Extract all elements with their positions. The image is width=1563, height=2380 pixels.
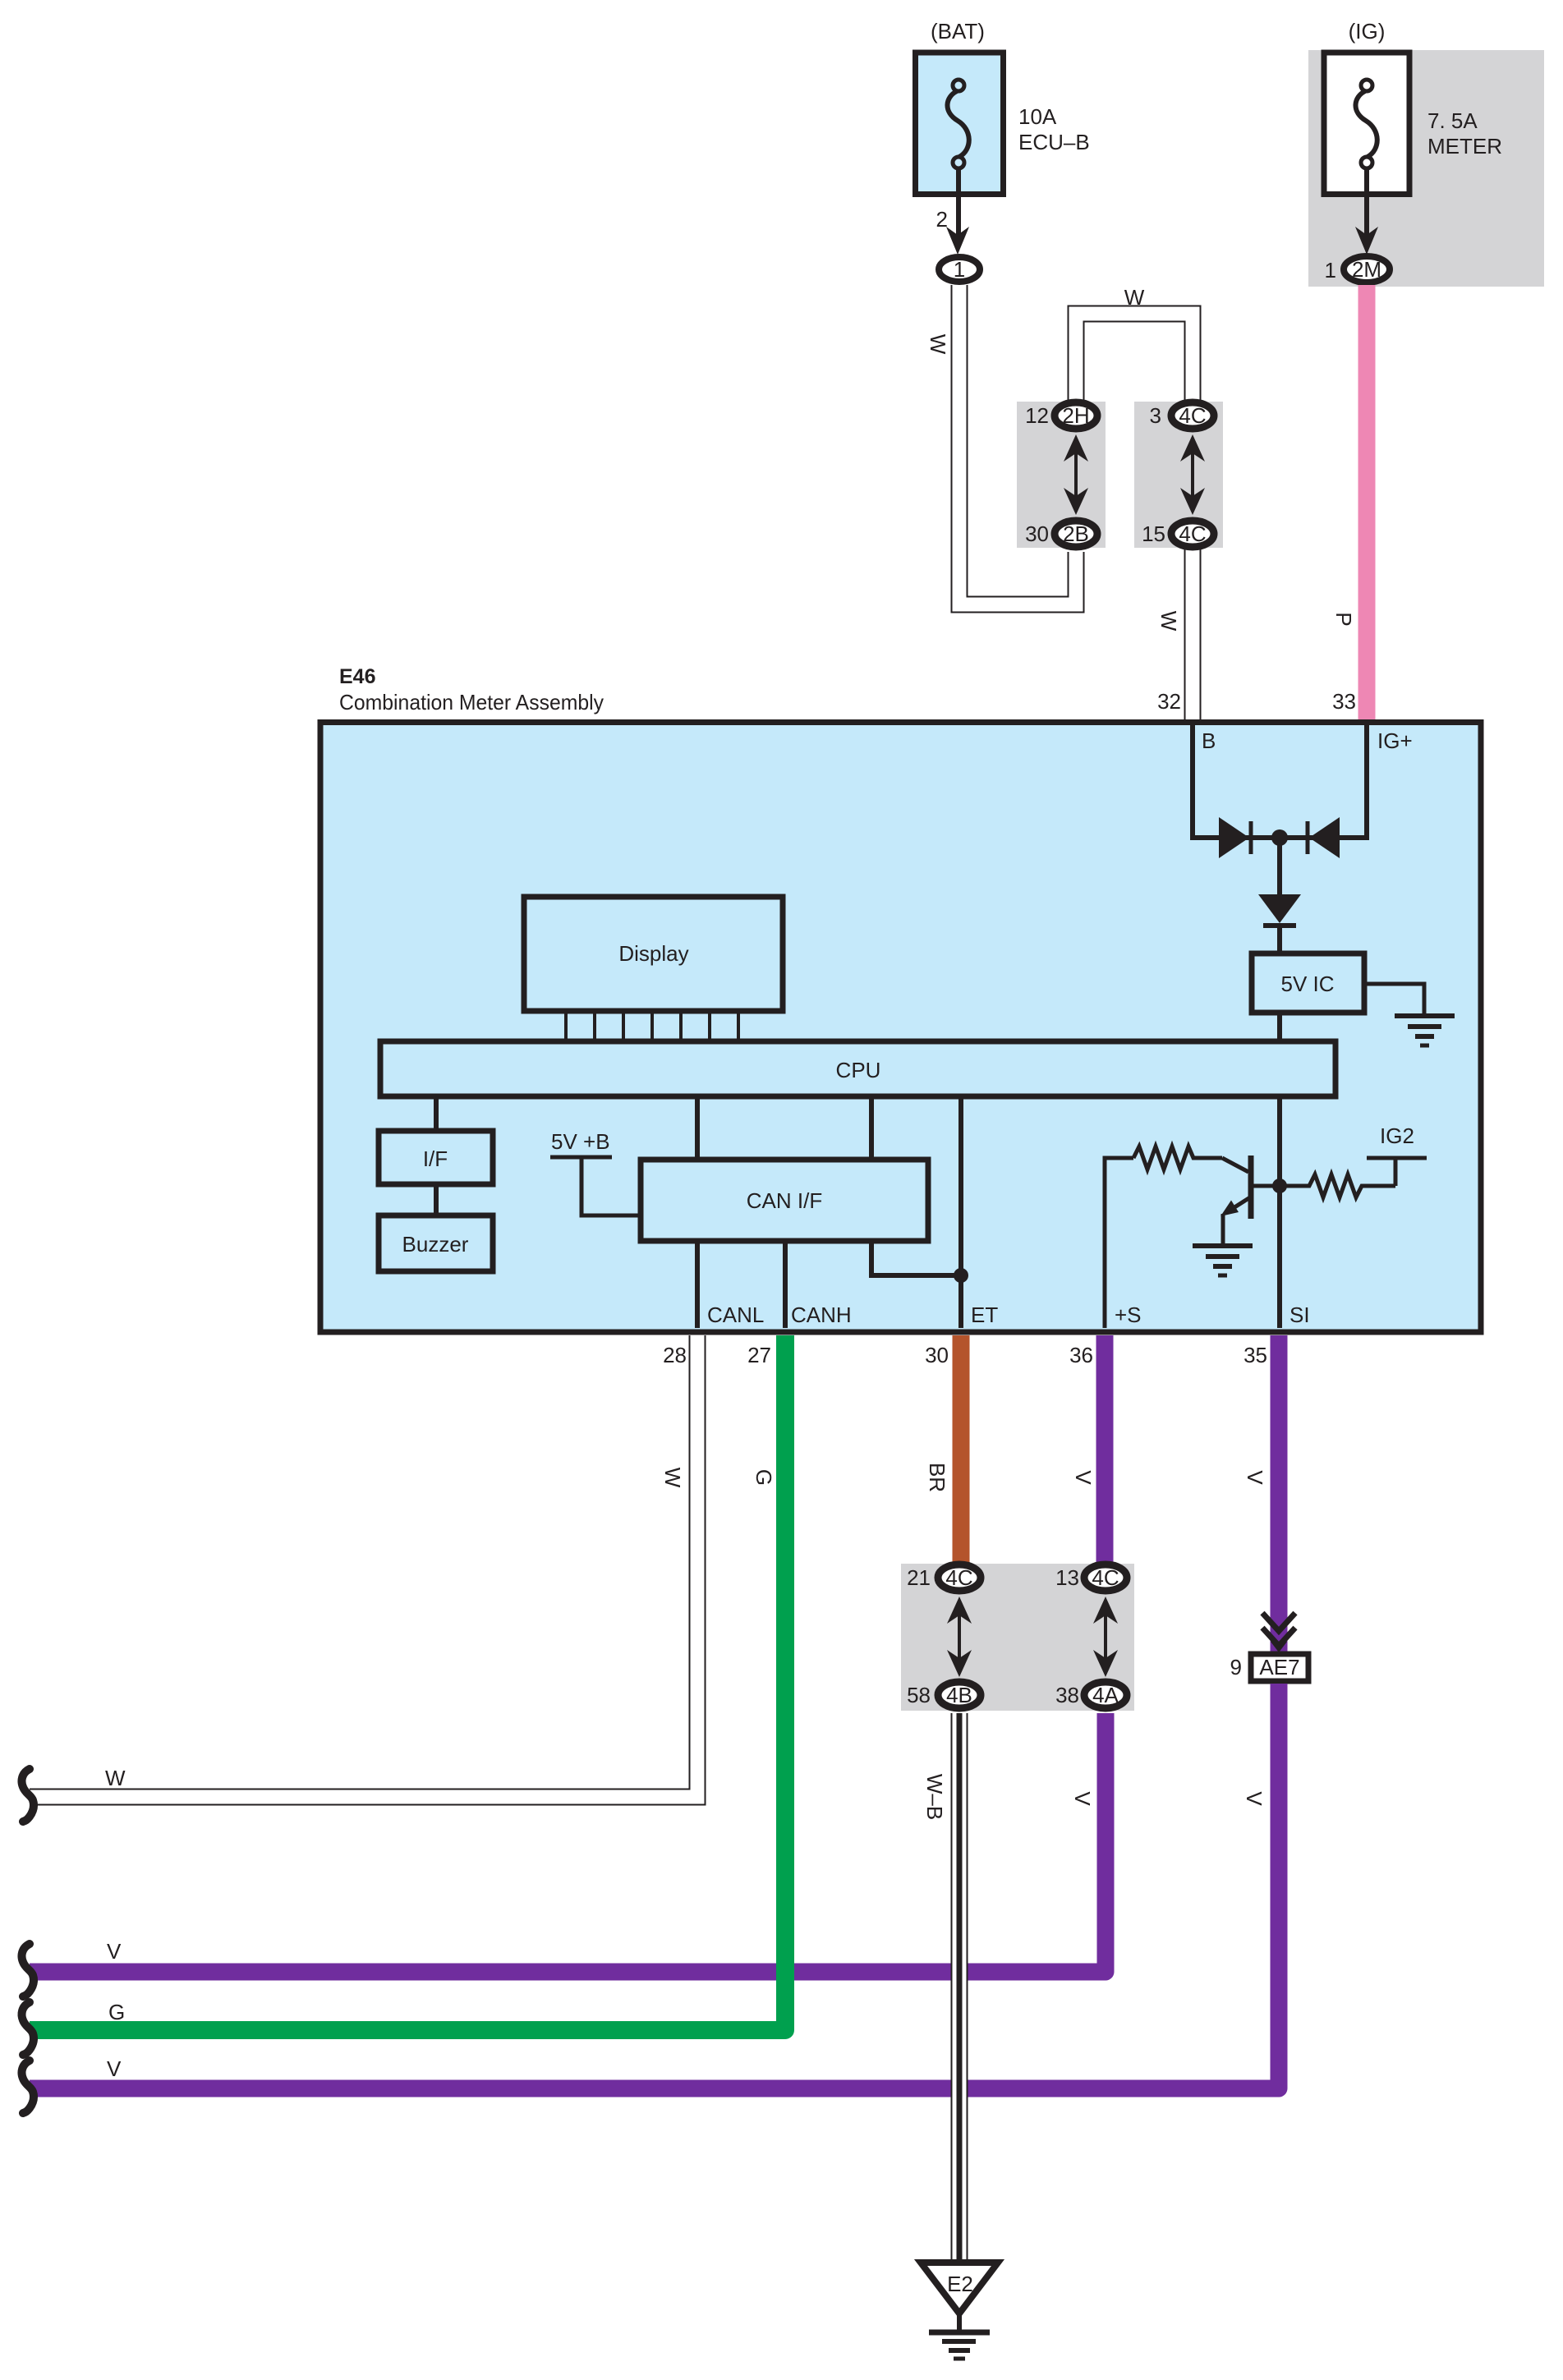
svg-text:30: 30 [925, 1343, 949, 1367]
svg-text:4C: 4C [1179, 403, 1206, 428]
svg-text:32: 32 [1157, 689, 1181, 714]
svg-text:METER: METER [1427, 134, 1502, 159]
wire V from connector 4A/38 to left break [30, 1713, 1106, 1972]
svg-text:E2: E2 [947, 2272, 973, 2296]
svg-text:1: 1 [954, 257, 965, 282]
diode D2 from IG+ [1308, 817, 1340, 858]
wire CPU to CAN I/F right [869, 1096, 874, 1160]
svg-text:IG2: IG2 [1380, 1123, 1414, 1148]
resistor R2 [1286, 1174, 1395, 1197]
svg-text:W: W [926, 334, 950, 355]
resistor R1 [1133, 1146, 1222, 1169]
svg-text:3: 3 [1150, 403, 1161, 428]
svg-text:Display: Display [618, 941, 688, 966]
svg-text:4C: 4C [1179, 521, 1206, 546]
connector AE7 arrows [1262, 1613, 1295, 1652]
svg-text:P: P [1331, 612, 1356, 626]
svg-text:28: 28 [663, 1343, 687, 1367]
wire from 5V IC to ground [1364, 984, 1424, 1013]
wire W bridge from 2H to 4C [1076, 314, 1193, 406]
svg-text:10A: 10A [1018, 104, 1057, 129]
wire W from 4C pin15 to pin 32 [1184, 542, 1202, 719]
CPU block [380, 1041, 1335, 1096]
wire CANL from CAN I/F to pin 28 [695, 1241, 700, 1328]
Buzzer block [379, 1215, 493, 1271]
svg-text:V: V [1071, 1470, 1096, 1485]
ground symbol at 5V IC [1395, 1016, 1455, 1045]
svg-text:36: 36 [1069, 1343, 1093, 1367]
wire I/F to Buzzer [434, 1184, 439, 1215]
CAN I/F block [641, 1160, 928, 1241]
wire from fuse to tag 1 [956, 168, 961, 237]
svg-text:CPU: CPU [836, 1058, 881, 1082]
svg-text:2M: 2M [1352, 257, 1381, 282]
connector 4B pin 58 [938, 1682, 981, 1708]
svg-text:4B: 4B [946, 1683, 972, 1707]
wire from node down to diode D3 [1277, 838, 1282, 897]
wire G from pin 27 down to left break [30, 1335, 785, 2030]
I/F block [379, 1131, 493, 1184]
arrow into tag 1 [946, 227, 969, 255]
fuse ECU-B 10A F1 [916, 53, 1004, 195]
svg-text:V: V [107, 1939, 122, 1964]
connector gray block 4C/4B/4A [901, 1564, 1134, 1711]
svg-text:IG+: IG+ [1377, 728, 1413, 753]
gray background of IG fuse block [1308, 50, 1544, 287]
svg-text:CANL: CANL [707, 1303, 764, 1327]
svg-text:B: B [1202, 728, 1216, 753]
svg-text:CANH: CANH [791, 1303, 852, 1327]
break symbol G [22, 2002, 34, 2055]
5V +B power tap [550, 1157, 640, 1215]
svg-text:V: V [1070, 1791, 1095, 1806]
svg-text:27: 27 [747, 1343, 771, 1367]
wire CANH from CAN I/F to pin 27 [783, 1241, 788, 1328]
connector J/C gray block right (4C/4C) [1134, 402, 1223, 548]
svg-text:35: 35 [1244, 1343, 1267, 1367]
svg-text:Combination Meter Assembly: Combination Meter Assembly [339, 690, 604, 714]
wire V from AE7 down to left break [30, 1684, 1279, 2088]
node B internal wire [1193, 719, 1367, 838]
junction node collector/SI [1272, 1179, 1287, 1193]
svg-text:W: W [1156, 611, 1181, 632]
svg-text:W–B: W–B [922, 1774, 947, 1820]
svg-text:12: 12 [1025, 403, 1049, 428]
ground symbol at Q1 emitter [1193, 1246, 1253, 1275]
svg-text:ECU–B: ECU–B [1018, 130, 1090, 154]
wire W from tag1 down right and up to 2B [959, 285, 1076, 604]
svg-text:4C: 4C [945, 1565, 972, 1590]
wire from METER fuse to tag 2M [1364, 168, 1369, 237]
wire V from pin 36 to connector 4C/13 [1096, 1335, 1114, 1566]
svg-text:58: 58 [907, 1683, 931, 1707]
svg-text:BR: BR [925, 1463, 949, 1492]
IG2 power tap [1367, 1158, 1427, 1186]
splice tag 2M [1344, 256, 1390, 283]
svg-text:ET: ET [971, 1303, 998, 1327]
svg-text:21: 21 [907, 1565, 931, 1590]
svg-text:E46: E46 [339, 665, 375, 688]
wire W from pin 28 down to left break [30, 1335, 697, 1797]
svg-text:V: V [107, 2056, 122, 2081]
fuse METER 7.5A [1324, 53, 1409, 195]
svg-text:15: 15 [1142, 521, 1165, 546]
svg-text:(BAT): (BAT) [931, 19, 985, 44]
svg-text:5V +B: 5V +B [551, 1129, 610, 1154]
svg-text:W: W [1124, 285, 1145, 310]
svg-text:AE7: AE7 [1259, 1655, 1299, 1679]
connector 2H pin 12 [1055, 402, 1097, 429]
connector 2B pin 30 [1055, 521, 1097, 547]
svg-text:V: V [1243, 1470, 1267, 1485]
splice tag 1 [939, 257, 980, 282]
transistor Q1 collector lead [1251, 1184, 1280, 1188]
wire V from pin 35 to AE7 [1271, 1335, 1288, 1653]
wire CPU to I/F [434, 1096, 439, 1131]
wire +S from pin 36 to resistor [1105, 1158, 1133, 1328]
svg-text:38: 38 [1055, 1683, 1079, 1707]
wire BR from pin 30 to connector 4C/21 [953, 1335, 970, 1566]
break symbol W [22, 1769, 34, 1822]
svg-text:V: V [1242, 1791, 1266, 1806]
svg-text:G: G [108, 2000, 125, 2024]
svg-text:5V IC: 5V IC [1280, 972, 1334, 996]
svg-text:1: 1 [1325, 258, 1336, 283]
wire SI from CPU to pin 35 [1277, 1096, 1282, 1328]
svg-text:4C: 4C [1092, 1565, 1119, 1590]
arrow into tag 2M [1355, 227, 1378, 255]
Display block [524, 897, 783, 1011]
junction node between diodes [1271, 829, 1288, 846]
wire from D3 to 5V IC [1277, 926, 1282, 953]
transistor Q1 emitter lead with arrow [1221, 1197, 1250, 1246]
svg-text:2B: 2B [1063, 521, 1089, 546]
svg-text:30: 30 [1025, 521, 1049, 546]
wire CPU to CAN I/F left [695, 1096, 700, 1160]
junction node on ET wire [954, 1268, 968, 1283]
connector 4C pin 3 [1171, 402, 1214, 429]
svg-text:Buzzer: Buzzer [402, 1232, 469, 1257]
svg-text:I/F: I/F [423, 1146, 448, 1171]
svg-text:W: W [660, 1468, 685, 1488]
E46 combination meter assembly block [320, 723, 1481, 1333]
wire 5V IC to CPU [1277, 1013, 1282, 1041]
double arrow between 2H and 2B [1064, 434, 1088, 515]
ground E2 [921, 2263, 998, 2359]
wire P pink from 2M to pin 33 [1358, 285, 1376, 719]
connector 4C pin 21 [938, 1564, 981, 1591]
break symbol middle V [22, 1944, 34, 1996]
svg-text:(IG): (IG) [1349, 19, 1386, 44]
transistor Q1 base lead [1222, 1158, 1248, 1172]
svg-text:2: 2 [936, 207, 948, 232]
connector 4A pin 38 [1084, 1682, 1127, 1708]
svg-text:SI: SI [1289, 1303, 1310, 1327]
wire CAN I/F to ET junction [871, 1241, 961, 1275]
svg-text:W: W [105, 1766, 126, 1790]
svg-text:G: G [752, 1469, 776, 1486]
diode D1 from B [1219, 817, 1251, 858]
wire W-B from 4B to ground E2 [951, 1713, 968, 2263]
regulator 5V IC [1252, 953, 1364, 1013]
display to CPU comb wires [566, 1013, 738, 1041]
svg-text:7. 5A: 7. 5A [1427, 108, 1478, 133]
transistor Q1 base bar [1248, 1156, 1254, 1219]
double arrow between 4C and 4B [947, 1597, 972, 1677]
diode D3 down [1258, 894, 1301, 926]
svg-text:+S: +S [1115, 1303, 1142, 1327]
connector 4C pin 15 [1171, 521, 1214, 547]
wire ET from CPU to pin 30 [958, 1096, 963, 1328]
svg-text:2H: 2H [1062, 403, 1089, 428]
svg-text:9: 9 [1230, 1655, 1242, 1679]
connector J/C gray block left (2H/2B) [1017, 402, 1106, 548]
connector 4C pin 13 [1084, 1564, 1127, 1591]
connector AE7 pin 9 [1251, 1654, 1308, 1681]
break symbol bottom V [22, 2061, 34, 2113]
svg-text:13: 13 [1055, 1565, 1079, 1590]
svg-text:33: 33 [1332, 689, 1356, 714]
double arrow between 4C and 4A [1093, 1597, 1118, 1677]
svg-text:CAN I/F: CAN I/F [747, 1188, 822, 1213]
svg-text:4A: 4A [1092, 1683, 1119, 1707]
double arrow between 4C and 4C [1180, 434, 1205, 515]
